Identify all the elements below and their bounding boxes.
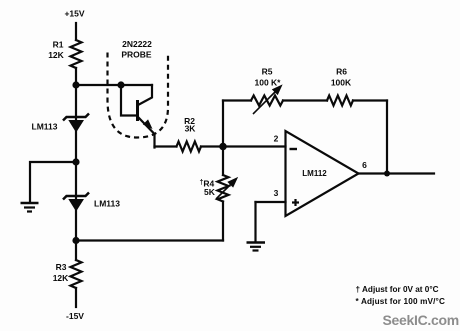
arrow emitter Q1 — [144, 120, 152, 128]
wire node A horizontal y=85 — [76, 84, 152, 86]
svg-text:-15V: -15V — [66, 311, 84, 321]
resistor R2 — [177, 142, 202, 152]
wire emitter to R2 — [155, 145, 177, 147]
op-amp plus sign — [292, 199, 299, 206]
svg-text:2: 2 — [274, 134, 279, 144]
resistor R3 — [71, 260, 82, 288]
wire summing node down to R4 — [222, 147, 224, 176]
zener diode LM113 #1 triangle — [68, 120, 84, 133]
wire pin 3 ground lead — [254, 202, 256, 242]
svg-text:LM113: LM113 — [32, 122, 58, 132]
svg-text:100K: 100K — [331, 78, 352, 88]
transistor Q1 base bar — [136, 102, 139, 120]
svg-text:+15V: +15V — [64, 9, 84, 19]
wire -15V lead — [75, 288, 77, 307]
node junction dot (76,162) — [72, 158, 79, 165]
potentiometer R5 zigzag — [251, 96, 283, 106]
zener diode LM113 #1 bar — [63, 114, 89, 121]
svg-text:3: 3 — [274, 188, 279, 198]
op-amp minus sign — [290, 148, 298, 150]
svg-text:* Adjust for 100 mV/°C: * Adjust for 100 mV/°C — [356, 297, 446, 306]
svg-text:12K: 12K — [48, 50, 64, 60]
svg-text:100 K*: 100 K* — [255, 78, 282, 88]
potentiometer R4 zigzag — [218, 175, 229, 202]
svg-text:12K: 12K — [53, 273, 69, 283]
node output junction dot (387,173.5) — [384, 171, 390, 177]
wire emitter of Q1 — [139, 118, 155, 148]
wire feedback vertical — [386, 101, 388, 174]
node junction dot (76,240.5) — [72, 237, 79, 244]
svg-text:3K: 3K — [185, 124, 197, 134]
resistor R1 — [71, 40, 82, 68]
wire between R5 and R6 — [283, 99, 327, 101]
svg-text:PROBE: PROBE — [121, 50, 152, 60]
svg-text:R5: R5 — [262, 67, 273, 77]
wire R4 bottom — [222, 202, 224, 241]
svg-text:SeekIC.com: SeekIC.com — [383, 312, 459, 328]
svg-text:LM113: LM113 — [94, 199, 120, 209]
arrow R5 wiper — [253, 86, 281, 114]
svg-text:R6: R6 — [336, 67, 347, 77]
svg-text:† Adjust for 0V at 0°C: † Adjust for 0V at 0°C — [356, 285, 439, 294]
node junction dot (121,85) — [117, 81, 124, 88]
wire bottom return y=240.5 — [76, 239, 223, 241]
arrow R4 wiper — [216, 179, 237, 200]
svg-text:R3: R3 — [56, 262, 67, 272]
wire R2 to op-amp pin 2 — [201, 145, 286, 147]
wire pin 3 horizontal — [256, 201, 286, 203]
node junction dot (76,85) — [72, 81, 79, 88]
op-amp U1 LM112 triangle — [286, 131, 359, 216]
node summing junction dot (223,146.5) — [219, 143, 227, 151]
probe dashed outline — [108, 53, 169, 138]
zener diode LM113 #2 triangle — [68, 199, 84, 212]
zener diode LM113 #2 bar — [63, 193, 89, 200]
ground left — [21, 203, 39, 212]
svg-text:2N2222: 2N2222 — [122, 39, 152, 49]
resistor R6 — [327, 96, 353, 106]
wire op-amp output — [359, 172, 435, 174]
wire +15V lead — [75, 23, 77, 40]
svg-text:R1: R1 — [53, 40, 64, 50]
wire R6 to feedback corner — [353, 99, 387, 101]
wire feedback top left segment — [223, 99, 251, 101]
svg-text:LM112: LM112 — [302, 169, 327, 178]
ground pin 3 — [247, 243, 266, 251]
svg-text:6: 6 — [362, 160, 367, 170]
wire left ground branch — [30, 162, 76, 202]
svg-text:5K: 5K — [204, 187, 216, 197]
wire summing node up to feedback — [222, 101, 224, 147]
wire left rail (R1 to R3) — [75, 68, 77, 260]
wire collector of Q1 — [139, 85, 152, 105]
wire base lead of Q1 — [121, 85, 138, 116]
